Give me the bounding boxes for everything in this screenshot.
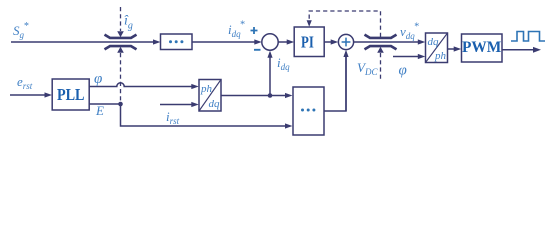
svg-text:φ: φ xyxy=(94,71,102,87)
transform ph/dq box xyxy=(199,80,221,112)
svg-text:vdq*: vdq* xyxy=(400,22,419,42)
wire Sg* to box1 xyxy=(11,41,154,43)
modulator PWM box xyxy=(462,34,503,62)
svg-text:Sg*: Sg* xyxy=(13,21,29,40)
wire S2 to dq/ph box xyxy=(354,41,419,43)
svg-text:PI: PI xyxy=(301,32,314,51)
wire e_rst to PLL xyxy=(10,94,46,96)
limiter L1 top brace xyxy=(105,35,137,38)
wire modulation box to S2 (right then up) xyxy=(324,56,346,111)
square wave glyph xyxy=(511,32,545,42)
wire PI to summer S2 xyxy=(324,41,332,43)
limiter L1 bottom brace xyxy=(105,46,137,49)
wire ph/dq output to modulation box with junction xyxy=(221,95,286,97)
wire from modulation box up into S2 xyxy=(345,56,347,111)
node i_dq junction dot xyxy=(268,93,273,98)
node E junction dot xyxy=(118,102,123,107)
dashed V_DC limit below L2 xyxy=(377,47,384,53)
svg-text:E: E xyxy=(95,103,104,118)
wire S1 to PI xyxy=(278,41,288,43)
svg-text:φ: φ xyxy=(399,63,407,79)
anti-windup dashed feedback from L2 to PI xyxy=(309,11,380,37)
limiter L2 top brace xyxy=(365,35,397,38)
minus sign at S1 xyxy=(254,49,261,51)
wire box1 to summer S1 xyxy=(192,41,256,43)
limiter L2 bottom brace xyxy=(365,46,397,49)
svg-text:ph: ph xyxy=(200,83,213,95)
svg-text:dq: dq xyxy=(428,36,440,48)
controller PI box xyxy=(294,27,324,57)
wire i_dq up into S1 xyxy=(269,57,271,96)
svg-text:PLL: PLL xyxy=(57,85,85,104)
svg-text:VDC: VDC xyxy=(357,60,378,77)
svg-text:idq: idq xyxy=(277,55,290,72)
modulation calc box (dots) xyxy=(293,87,324,135)
dashed limit line above L1 xyxy=(120,7,122,31)
svg-text:PWM: PWM xyxy=(462,39,501,56)
svg-text:ph: ph xyxy=(434,50,447,62)
summer S1 xyxy=(262,34,278,50)
E output wire: right, down, right into modulation box xyxy=(89,104,286,126)
wire dq/ph to PWM xyxy=(448,48,456,50)
dashed limit line below L1 to E node xyxy=(117,47,124,53)
svg-text:dq: dq xyxy=(209,98,221,110)
summer S2 with plus xyxy=(338,34,353,49)
transform dq/ph box xyxy=(426,33,448,63)
phi output wire with hop over dashed line xyxy=(89,83,192,87)
plus sign at S1 xyxy=(251,27,258,34)
output wire with arrow xyxy=(502,49,534,51)
svg-text:îg: îg xyxy=(124,14,133,32)
svg-text:idq*: idq* xyxy=(228,20,245,40)
phi stub into dq/ph box xyxy=(393,56,419,58)
i_rst stub into ph/dq xyxy=(160,104,193,106)
svg-text:irst: irst xyxy=(166,109,180,126)
svg-text:erst: erst xyxy=(17,74,33,91)
block PLL box xyxy=(52,79,89,110)
box1 (current reference calc) xyxy=(161,34,193,50)
